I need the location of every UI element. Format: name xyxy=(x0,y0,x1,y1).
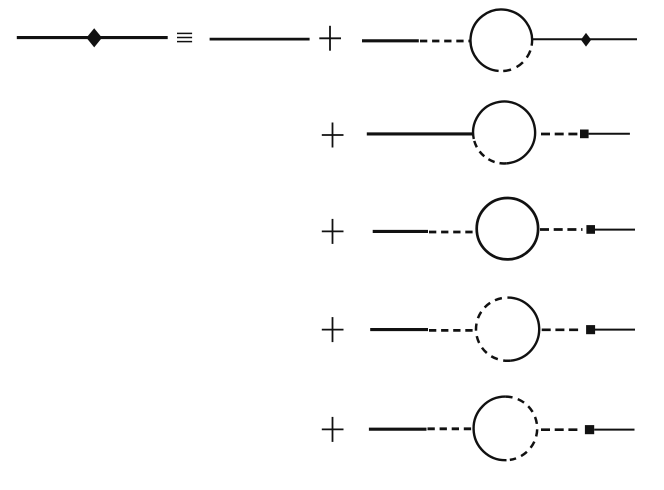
row 2: loop circle solid arc xyxy=(473,101,535,163)
row 2: dashed wire to vertex xyxy=(541,133,577,136)
row 1: loop circle solid arc xyxy=(470,9,532,70)
row 2: plus sign xyxy=(322,123,344,148)
row 3: outgoing thin wire xyxy=(595,229,635,231)
row 5: outgoing thin wire xyxy=(594,429,634,431)
row 1: incoming solid wire xyxy=(362,39,419,42)
row 4: incoming solid wire xyxy=(370,328,428,331)
row 1: dashed propagator wire xyxy=(420,40,471,43)
row 5: dashed propagator wire xyxy=(428,427,474,430)
row 4: loop circle solid arc xyxy=(508,298,540,361)
row 4: plus sign xyxy=(322,317,344,342)
equivalence symbol xyxy=(177,33,192,41)
row 5: square vertex xyxy=(585,425,594,434)
row 3: plus sign xyxy=(322,219,344,244)
row 2: loop circle dashed arc xyxy=(474,139,506,164)
row 5: incoming solid wire xyxy=(369,428,427,431)
row 4: dashed propagator wire xyxy=(429,329,476,332)
row 1: small diamond vertex xyxy=(581,33,591,47)
row 1: plus sign xyxy=(319,26,341,51)
row 3: dashed wire to vertex xyxy=(540,228,583,231)
row 1: loop circle dashed arc xyxy=(499,46,532,71)
row 4: square vertex xyxy=(586,325,595,334)
row 2: square vertex xyxy=(580,130,589,139)
row 1: dressed propagator (LHS) wire xyxy=(17,36,168,39)
row 1: outgoing thin wire xyxy=(532,38,637,40)
row 2: outgoing thin wire xyxy=(589,133,630,135)
row 1: bare propagator wire xyxy=(210,38,310,41)
row 2: incoming solid wire xyxy=(367,132,474,135)
row 5: plus sign xyxy=(322,417,344,442)
row 4: outgoing thin wire xyxy=(595,329,635,331)
row 4: dashed wire to vertex xyxy=(542,328,582,331)
row 5: loop circle solid arc xyxy=(474,397,507,461)
row 5: loop circle dashed arc xyxy=(505,397,537,460)
row 1: dressed vertex diamond D1 xyxy=(86,28,102,47)
row 3: incoming solid wire xyxy=(373,230,428,233)
row 4: loop circle dashed arc xyxy=(476,298,510,361)
row 5: dashed wire to vertex xyxy=(541,428,581,431)
row 3: dashed propagator wire xyxy=(429,231,477,234)
row 3: square vertex xyxy=(586,225,595,234)
row 3: loop circle (all solid) xyxy=(477,198,538,259)
